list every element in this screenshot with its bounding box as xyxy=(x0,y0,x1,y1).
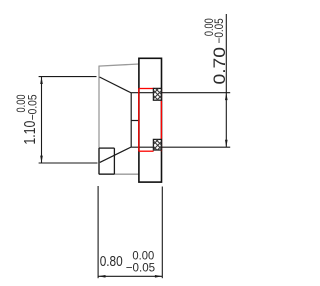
dimension 0.80: right arrowhead xyxy=(155,275,162,278)
dimension 0.80: right extension line xyxy=(161,187,163,279)
node: flange rectangle xyxy=(139,58,162,182)
svg-text:−0.05: −0.05 xyxy=(25,94,39,120)
node: top hatched section square xyxy=(153,88,161,100)
svg-text:0.80: 0.80 xyxy=(100,254,123,270)
wire: bore mid step line xyxy=(131,120,139,122)
svg-text:−0.05: −0.05 xyxy=(126,261,156,275)
wire: outer top edge (gray) xyxy=(99,64,140,66)
svg-text:−0.05: −0.05 xyxy=(212,18,226,43)
dimension 1.10: dimension line xyxy=(41,77,43,163)
dimension 0.70: bottom arrowhead xyxy=(225,140,228,147)
wire: inner cone top diagonal xyxy=(100,77,132,93)
dimension 0.80: left extension line xyxy=(97,186,99,278)
wire: outer bottom edge (gray) xyxy=(99,173,140,175)
svg-text:1.10: 1.10 xyxy=(22,121,39,145)
node: red highlight rectangle xyxy=(139,89,162,152)
dimension 1.10: top extension line xyxy=(39,76,97,78)
svg-text:0.70: 0.70 xyxy=(211,47,229,84)
wire: outer left vertical edge (gray) xyxy=(98,66,100,174)
dimension 0.70: top arrowhead xyxy=(225,93,228,100)
dimension 0.80: left arrowhead xyxy=(98,275,105,278)
wire: lower horizontal edge + extension line (y=147.2) xyxy=(131,146,230,148)
dimension 1.10: bottom arrowhead xyxy=(40,156,43,163)
wire: upper horizontal edge + extension line (y=92.7) xyxy=(131,92,230,94)
dimension 1.10: top arrowhead xyxy=(40,77,43,84)
dimension 1.10: bottom extension line xyxy=(39,162,98,164)
node: bottom hatched section square xyxy=(153,139,161,150)
dimension 0.80: dimension line xyxy=(98,275,162,277)
node: lower-left step rectangle xyxy=(99,148,114,174)
wire: inner bore vertical xyxy=(130,93,132,148)
wire: inner cone bottom diagonal xyxy=(100,147,131,162)
dimension 0.70: dimension line xyxy=(225,14,227,147)
